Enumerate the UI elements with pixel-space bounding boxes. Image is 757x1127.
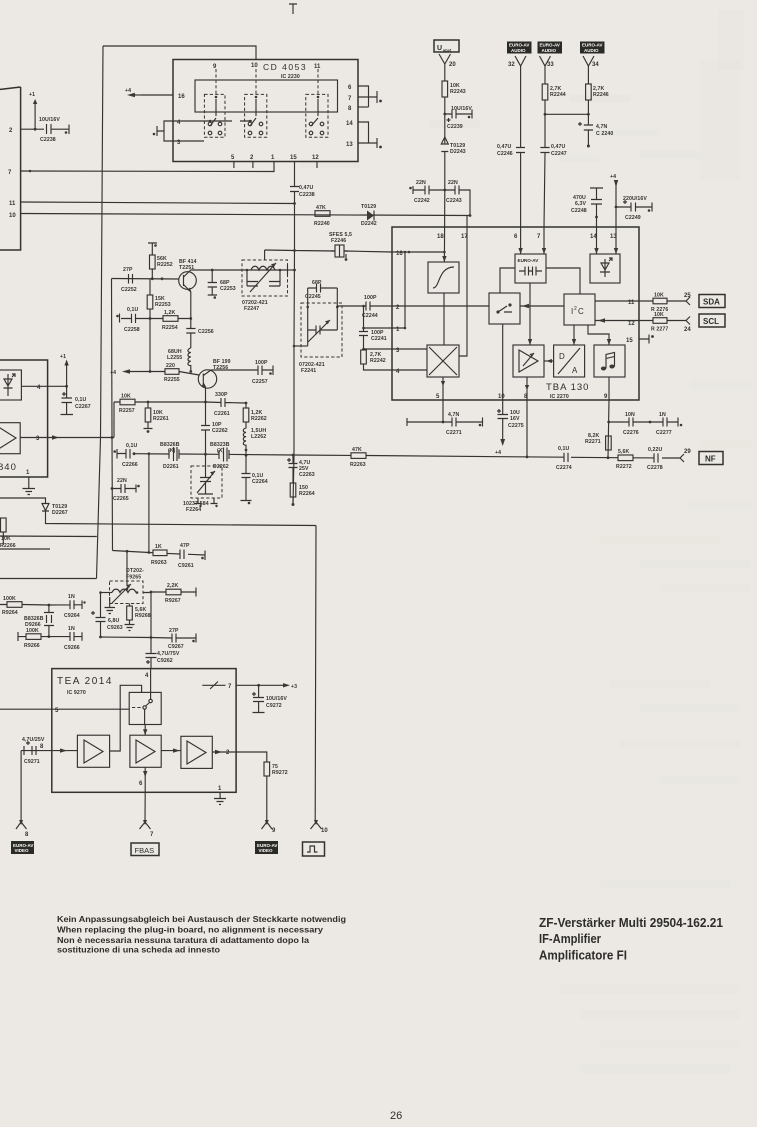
node SCL (699, 314, 725, 327)
wire 33-34 link (545, 113, 588, 115)
resistor R2252 56K (148, 243, 157, 279)
svg-text:R9268: R9268 (135, 613, 151, 619)
svg-text:R2254: R2254 (162, 325, 178, 331)
wire da-amp (544, 360, 554, 362)
svg-text:C2267: C2267 (75, 404, 91, 410)
filter D2261 B8326B (K) (169, 447, 179, 461)
connector 20 fork (439, 54, 451, 64)
svg-text:2,2K: 2,2K (167, 583, 179, 589)
capacitor C2252 27P (129, 274, 133, 284)
wire left frame stub (0, 535, 97, 538)
connector 7 FBAS (140, 822, 151, 829)
wire 22N branch riser (461, 190, 470, 216)
transistor T2251 BF 414 (179, 272, 197, 290)
svg-text:C9271: C9271 (24, 759, 40, 765)
svg-text:U: U (437, 45, 442, 52)
svg-text:10U/16V: 10U/16V (266, 696, 287, 702)
wire pin6 to FBAS (144, 792, 146, 822)
svg-text:A: A (572, 366, 578, 375)
svg-text:+1: +1 (29, 92, 35, 98)
wire 34 down (587, 66, 589, 84)
capacitor C2243 22N (445, 186, 461, 195)
resistor R2271 8.2K (606, 436, 612, 450)
svg-text:R 2277: R 2277 (651, 327, 668, 333)
svg-text:R2252: R2252 (157, 262, 173, 268)
svg-text:R2246: R2246 (593, 92, 609, 98)
svg-text:34: 34 (592, 62, 599, 68)
IC (left edge, top) partial block (0, 87, 21, 250)
wire F2247 top link (264, 250, 266, 260)
connector 33 fork (540, 56, 551, 66)
svg-text:100P: 100P (255, 360, 268, 366)
wire TBA pin9 drop (608, 400, 609, 458)
svg-text:EURO-AV: EURO-AV (518, 258, 540, 263)
svg-text:(X): (X) (217, 448, 224, 454)
wire R9263 feed line (113, 551, 206, 556)
svg-text:D2242: D2242 (361, 221, 377, 227)
terminal pins 6-8 (376, 91, 378, 103)
svg-text:C9261: C9261 (178, 563, 194, 569)
wire 33 down (544, 66, 546, 84)
capacitor C2241 100P (359, 306, 368, 350)
resistor R9268 5.6K (129, 604, 131, 607)
terminal pin 13 (376, 138, 378, 148)
capacitor C2278 0.22U (654, 453, 658, 462)
wire D2267 to connector-10 bus (46, 511, 317, 526)
transistor T2256 BF 199 (198, 370, 216, 388)
svg-text:1N: 1N (68, 594, 75, 600)
svg-text:26: 26 (390, 1110, 402, 1122)
svg-text:D2267: D2267 (52, 510, 68, 516)
svg-text:C2277: C2277 (656, 430, 672, 436)
capacitor C9261 47P (180, 550, 205, 561)
svg-text:R2257: R2257 (119, 408, 135, 414)
wire long vertical left (97, 46, 104, 579)
connector 34 fork (583, 56, 594, 66)
svg-text:C: C (578, 307, 584, 316)
capacitor C9267 27P (151, 634, 196, 643)
svg-text:IC 9270: IC 9270 (67, 690, 86, 696)
svg-text:330P: 330P (215, 392, 228, 398)
capacitor C2271 4.7N (407, 418, 483, 427)
capacitor C2267 0.1U (61, 386, 74, 414)
collector T2256 (203, 370, 258, 376)
capacitor C2256 (186, 319, 195, 349)
svg-text:SDA: SDA (703, 298, 720, 307)
wire 32 down (520, 66, 522, 227)
svg-text:Amplificatore FI: Amplificatore FI (539, 948, 627, 963)
connector 9 (262, 822, 273, 829)
svg-text:C2253: C2253 (220, 286, 236, 292)
wire TBA pin1 out (364, 327, 393, 329)
svg-text:10U/16V: 10U/16V (39, 117, 60, 123)
svg-text:Non è necessaria nessuna tarat: Non è necessaria nessuna taratura di ada… (57, 935, 309, 945)
wire 20 down (444, 64, 446, 81)
music block (594, 345, 625, 377)
node +4 down arrow (500, 439, 505, 446)
svg-text:L2255: L2255 (167, 355, 182, 361)
svg-text:0,1U: 0,1U (75, 397, 87, 403)
wire top stub off-page (289, 4, 297, 14)
svg-text:18: 18 (437, 234, 444, 240)
capacitor C2264 0.1U (241, 455, 252, 500)
svg-text:13: 13 (346, 142, 353, 148)
capacitor C2262 10P (201, 402, 210, 454)
resistor R2266 10K (left edge) (1, 518, 7, 532)
svg-text:29: 29 (684, 449, 691, 455)
capacitor C2274 0.1U (564, 453, 568, 462)
switch block (489, 293, 520, 324)
D/A block (554, 345, 585, 377)
svg-text:(K): (K) (168, 448, 176, 454)
connector 32 EURO-AV AUDIO box (507, 42, 532, 54)
svg-text:0,1U: 0,1U (126, 443, 138, 449)
amplifier block (513, 345, 544, 377)
resistor R2276 10K (639, 300, 686, 302)
svg-text:22N: 22N (448, 180, 458, 186)
resistor R2257 10K (114, 401, 206, 403)
svg-text:0,47U: 0,47U (299, 185, 313, 191)
diode D2267 T0129 (42, 504, 49, 512)
svg-text:SCL: SCL (703, 317, 719, 326)
svg-text:C2263: C2263 (299, 472, 315, 478)
svg-text:C9267: C9267 (168, 644, 184, 650)
svg-text:TEA 2014: TEA 2014 (57, 676, 113, 687)
capacitor C2276 10N (609, 418, 650, 427)
wire limiter to mixer (443, 293, 445, 345)
svg-text:C2274: C2274 (556, 465, 572, 471)
svg-text:14: 14 (346, 121, 353, 127)
node +3 (259, 684, 283, 686)
svg-text:C2242: C2242 (414, 198, 430, 204)
wire 840 bottom to D2267 (0, 498, 46, 503)
svg-text:4,7N: 4,7N (448, 412, 460, 418)
svg-text:27P: 27P (123, 267, 133, 273)
resistor R2254 1.2K (150, 318, 191, 320)
svg-text:+1: +1 (60, 354, 66, 360)
connector 20 U-abstimm box (434, 40, 459, 52)
filter F2247 07202-421 dashed (242, 260, 288, 296)
svg-text:TBA 130: TBA 130 (546, 382, 589, 393)
capacitor C2257 100P (258, 366, 273, 376)
wire switch down to A2 (144, 725, 146, 736)
svg-text:27P: 27P (169, 628, 179, 634)
svg-text:4,7U/75V: 4,7U/75V (157, 651, 180, 657)
svg-text:C2241: C2241 (371, 336, 387, 342)
wire switch to pin10 (502, 324, 504, 400)
svg-text:10: 10 (321, 828, 328, 834)
svg-text:10N: 10N (625, 412, 635, 418)
svg-text:C2257: C2257 (252, 379, 268, 385)
wire pin10 bus (21, 214, 470, 216)
svg-text:VIDEO: VIDEO (259, 848, 274, 853)
svg-text:F2264: F2264 (186, 507, 201, 513)
svg-text:AUDIO: AUDIO (542, 48, 557, 53)
svg-text:EURO-AV: EURO-AV (540, 43, 560, 48)
svg-text:ZF-Verstärker Multi 29504-162.: ZF-Verstärker Multi 29504-162.21 (539, 915, 723, 930)
resistor R2255 220 (165, 369, 179, 375)
svg-text:L2262: L2262 (251, 434, 266, 440)
svg-text:22N: 22N (117, 478, 127, 484)
svg-text:4,7U/25V: 4,7U/25V (22, 737, 45, 743)
filter D9266 B8326B (44, 605, 54, 637)
svg-text:VIDEO: VIDEO (15, 848, 30, 853)
inductor L2255 68UH (188, 348, 191, 372)
svg-text:C2246: C2246 (497, 151, 513, 157)
filter D2262 B8323B (X) (219, 448, 229, 462)
svg-text:C2265: C2265 (113, 496, 129, 502)
svg-text:220U/16V: 220U/16V (623, 196, 647, 202)
wire lower link line (101, 636, 152, 639)
resistor R9272 75 (264, 762, 270, 776)
svg-text:+4: +4 (495, 450, 501, 456)
ground F9265 (105, 597, 116, 614)
svg-text:12: 12 (312, 155, 319, 161)
op-amp U TBA 130 IC 2270 outer box (392, 227, 639, 400)
svg-text:sostituzione di una scheda ad: sostituzione di una scheda ad innesto (57, 945, 220, 955)
resistor R2243 10K (442, 81, 448, 97)
wire euroav-i2c (546, 268, 580, 294)
svg-text:C2243: C2243 (446, 198, 462, 204)
svg-text:D2243: D2243 (450, 149, 466, 155)
svg-text:IF-Amplifier: IF-Amplifier (539, 931, 601, 946)
svg-text:C2258: C2258 (124, 327, 140, 333)
capacitor C9262 4.7U/75V (146, 650, 157, 669)
switch A dashed cell (204, 94, 225, 137)
svg-text:C9262: C9262 (157, 658, 173, 664)
svg-text:F9265: F9265 (126, 575, 141, 581)
svg-text:C 2240: C 2240 (596, 131, 613, 137)
amplifier A3 (181, 736, 212, 768)
svg-text:5,6K: 5,6K (618, 449, 630, 455)
wire top frame (103, 46, 256, 60)
svg-text:4,7N: 4,7N (596, 124, 608, 130)
svg-text:C9266: C9266 (64, 645, 80, 651)
svg-text:C2264: C2264 (252, 479, 268, 485)
wire F9265 right riser (143, 592, 151, 651)
svg-text:IC 2230: IC 2230 (281, 74, 300, 80)
resistor R2272 5.6K (618, 455, 633, 461)
svg-text:Kein Anpassungsabgleich bei Au: Kein Anpassungsabgleich bei Austausch de… (57, 914, 346, 924)
svg-text:F2246: F2246 (331, 238, 346, 244)
connector 34 EURO-AV AUDIO box (580, 42, 605, 54)
wire SFES line (pin16 feed) (265, 250, 392, 252)
capacitor C2249 220U/16V (616, 203, 652, 212)
wire i2c-da (573, 325, 575, 345)
svg-text:10K: 10K (121, 394, 131, 400)
svg-text:EURO-AV: EURO-AV (509, 43, 529, 48)
emitter T2256 (203, 383, 205, 402)
wire pin7 to CD4053 pin1 (21, 162, 274, 172)
svg-text:12: 12 (628, 321, 635, 327)
filter F2264 10237-584 dashed (205, 454, 207, 470)
svg-text:6,8U: 6,8U (108, 618, 120, 624)
svg-text:15: 15 (290, 155, 297, 161)
capacitor C9272 10U/16V (253, 685, 265, 712)
capacitor C2258 0.1U (120, 314, 151, 324)
svg-text:16: 16 (178, 94, 185, 100)
svg-text:CD 4053: CD 4053 (263, 62, 307, 72)
limiter block (428, 262, 459, 293)
svg-text:abst: abst (443, 48, 452, 53)
svg-text:C2275: C2275 (508, 423, 524, 429)
collector T2251 (184, 270, 243, 277)
wire base line T2251 (112, 278, 180, 281)
capacitor C2275 10U 16V (498, 400, 509, 440)
svg-text:R2253: R2253 (155, 302, 171, 308)
svg-text:24: 24 (684, 327, 691, 333)
switch C dashed cell (306, 94, 328, 137)
svg-text:10K: 10K (1, 536, 11, 542)
svg-text:+4: +4 (125, 88, 131, 94)
varactor block 840 (0, 370, 21, 400)
svg-text:C2276: C2276 (623, 430, 639, 436)
svg-text:10: 10 (498, 394, 505, 400)
wire pin2 to connector 9 (236, 752, 267, 762)
svg-text:C2238: C2238 (40, 137, 56, 143)
svg-text:100P: 100P (364, 295, 377, 301)
svg-text:11: 11 (9, 201, 16, 207)
node junction pin8 (526, 456, 529, 459)
caption right title (539, 915, 723, 963)
svg-text:0,47U: 0,47U (497, 144, 511, 150)
svg-text:IC 2270: IC 2270 (550, 394, 569, 400)
connector 8 (16, 751, 27, 829)
wire C2266 drop (148, 454, 150, 553)
svg-text:47K: 47K (352, 447, 362, 453)
svg-text:R2262: R2262 (251, 416, 267, 422)
terminal left of pins 4/3 (156, 126, 158, 136)
svg-text:0,1U: 0,1U (558, 446, 570, 452)
svg-text:R2243: R2243 (450, 89, 466, 95)
svg-text:C9272: C9272 (266, 703, 282, 709)
svg-text:When replacing the plug-in boa: When replacing the plug-in board, no ali… (57, 925, 323, 935)
capacitor C2265 22N (111, 487, 114, 490)
svg-text:+4: +4 (610, 174, 616, 180)
svg-text:R9264: R9264 (2, 610, 18, 616)
svg-text:R9267: R9267 (165, 598, 181, 604)
svg-text:FBAS: FBAS (135, 846, 155, 855)
wire pin3 drop (111, 438, 114, 551)
svg-text:10U/16V: 10U/16V (451, 106, 472, 112)
svg-text:R2266: R2266 (0, 543, 16, 549)
amplifier block 840 (0, 423, 20, 454)
amplifier A2 (130, 735, 161, 767)
svg-text:R2271: R2271 (585, 439, 601, 445)
resistor R2277 10K (639, 320, 686, 322)
wire A2 to A3 (161, 750, 181, 752)
svg-text:C2252: C2252 (121, 287, 137, 293)
svg-text:R2263: R2263 (350, 462, 366, 468)
IC ..840 (left edge, middle) partial block (0, 360, 48, 477)
svg-text:0,22U: 0,22U (648, 447, 662, 453)
wire collector line to main vertical (287, 269, 295, 271)
connector 33 EURO-AV AUDIO box (538, 42, 563, 54)
resistor R9264 100K (0, 604, 49, 607)
resistor R2240 47K (315, 211, 330, 217)
svg-text:C2261: C2261 (214, 411, 230, 417)
svg-text:10K: 10K (654, 312, 664, 318)
bleed-through ghosts (decorative) (300, 10, 752, 1074)
I2C block (564, 294, 595, 325)
svg-text:AUDIO: AUDIO (511, 48, 526, 53)
svg-text:C2262: C2262 (212, 428, 228, 434)
op-amp U CD4053 IC 2230 outer box (173, 60, 358, 162)
svg-text:15: 15 (626, 338, 633, 344)
svg-text:DT202-: DT202- (126, 568, 144, 574)
svg-text:I: I (571, 307, 573, 316)
resistor R2253 15K (149, 279, 151, 319)
svg-text:C2244: C2244 (362, 313, 378, 319)
varactor block (590, 254, 620, 283)
svg-text:NF: NF (705, 455, 716, 464)
capacitor C2248 470U 6.3V (590, 188, 603, 227)
resistor R2246 2.7K (586, 84, 592, 100)
capacitor C2240 4.7N (584, 125, 593, 145)
svg-text:C9264: C9264 (64, 613, 80, 619)
capacitor C2266 0.1U (126, 449, 130, 459)
resistor R2262 1.2K (245, 403, 247, 408)
svg-text:10: 10 (251, 63, 258, 69)
capacitor C2242 22N (413, 186, 445, 195)
wire i2c-music (588, 325, 609, 345)
svg-text:1N: 1N (659, 412, 666, 418)
svg-text:T0129: T0129 (361, 204, 376, 210)
emitter T2251 (184, 285, 191, 319)
svg-text:R2240: R2240 (314, 221, 330, 227)
svg-text:1K: 1K (155, 544, 162, 550)
svg-text:16V: 16V (510, 416, 520, 422)
resistor R2263 47K (350, 454, 352, 456)
amplifier A1 (77, 735, 109, 767)
inductor L2262 1.5UH (243, 422, 246, 456)
wire pin15 vertical long (293, 162, 295, 505)
svg-text:47K: 47K (316, 205, 326, 211)
svg-text:220: 220 (166, 363, 175, 369)
caption left (57, 914, 346, 955)
svg-text:C9263: C9263 (107, 625, 123, 631)
svg-text:2: 2 (574, 306, 577, 312)
capacitor C2244 100P (337, 302, 392, 311)
wire A1 up to switch (110, 685, 142, 751)
capacitor C2277 1N (650, 418, 678, 427)
svg-text:R2242: R2242 (370, 358, 386, 364)
svg-text:C2248: C2248 (571, 208, 587, 214)
wire F2241 to main vertical (294, 345, 308, 347)
svg-text:+3: +3 (291, 684, 297, 690)
capacitor C9271 4.7U/25V (24, 746, 36, 755)
diode D2242 T0129 (367, 211, 374, 221)
svg-text:6,3V: 6,3V (575, 201, 587, 207)
wire TBA pin5 drop (442, 400, 444, 422)
filter F2241 07202-421 dashed (301, 303, 342, 357)
svg-text:R2264: R2264 (299, 491, 315, 497)
EURO-AV block (515, 254, 546, 283)
svg-text:R2255: R2255 (164, 377, 180, 383)
resistor R2261 10K (144, 402, 153, 429)
svg-text:R9263: R9263 (151, 560, 167, 566)
switch block TEA (129, 692, 161, 724)
svg-text:47P: 47P (180, 543, 190, 549)
svg-text:R9266: R9266 (24, 643, 40, 649)
capacitor C2238 0.47U (290, 187, 299, 192)
svg-text:10K: 10K (654, 293, 664, 299)
svg-text:R2244: R2244 (550, 92, 566, 98)
svg-text:D2261: D2261 (163, 464, 179, 470)
wire NF audio line (117, 454, 680, 459)
capacitor C2253 68P (208, 270, 217, 295)
svg-text:C2247: C2247 (551, 151, 567, 157)
